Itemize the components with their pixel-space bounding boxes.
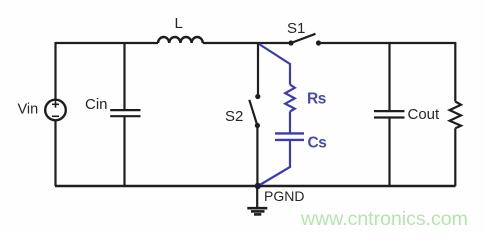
svg-text:Cs: Cs	[308, 135, 327, 152]
svg-text:PGND: PGND	[264, 188, 304, 204]
capacitor Cout	[374, 42, 405, 186]
wire snubber top diagonal (blue)	[259, 44, 290, 85]
wire Rs to Cs (blue)	[289, 112, 291, 133]
svg-text:www.cntronics.com: www.cntronics.com	[300, 208, 468, 230]
inductor L	[158, 37, 203, 43]
switch S2	[249, 94, 260, 128]
resistor Rload	[450, 102, 461, 129]
ground	[247, 186, 267, 214]
capacitor Cs	[275, 133, 304, 140]
svg-text:Vin: Vin	[18, 102, 39, 118]
wire bottom rail	[55, 185, 456, 187]
wire top rail mid segment	[203, 42, 289, 44]
wire right vertical bottom	[454, 128, 456, 186]
wire S2 branch bottom	[256, 128, 258, 187]
svg-text:Cout: Cout	[408, 106, 441, 123]
source Vin	[45, 100, 66, 121]
wire left vertical top	[54, 42, 56, 100]
svg-text:Rs: Rs	[307, 91, 326, 108]
wire right vertical top	[454, 42, 456, 102]
switch S1	[288, 34, 321, 46]
node PGND junction dot	[255, 183, 261, 189]
wire top rail right segment	[321, 42, 456, 44]
wire left vertical bottom	[54, 120, 56, 186]
svg-text:Cin: Cin	[85, 96, 108, 113]
wire top rail left segment	[55, 42, 158, 44]
svg-text:S1: S1	[287, 20, 305, 37]
capacitor Cin	[110, 42, 140, 186]
svg-text:S2: S2	[225, 108, 243, 125]
svg-text:L: L	[175, 15, 183, 32]
resistor Rs	[285, 85, 295, 112]
wire S2 branch top	[257, 42, 259, 94]
wire snubber bottom diagonal (blue)	[258, 141, 290, 186]
